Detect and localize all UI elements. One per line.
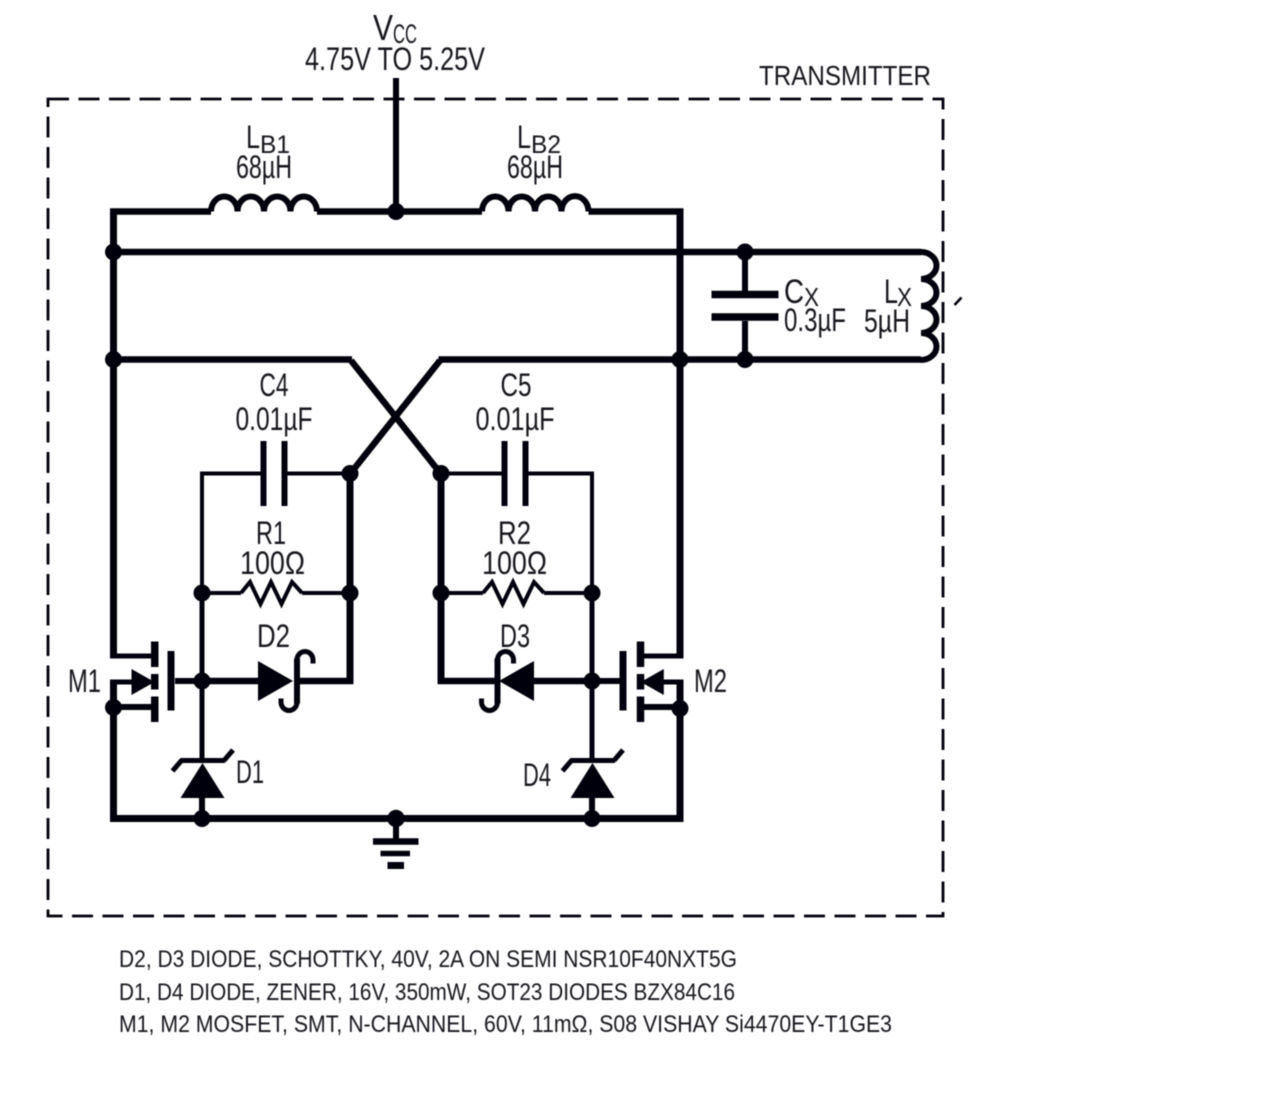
capacitor CX xyxy=(712,252,779,360)
node Cx bottom junction xyxy=(737,351,754,368)
svg-text:TRANSMITTER: TRANSMITTER xyxy=(759,60,931,91)
wire right rail upper xyxy=(677,209,684,659)
node Cx top junction xyxy=(737,244,754,261)
inductor LB2 xyxy=(482,196,589,211)
node M1 source junction xyxy=(105,699,122,716)
ground xyxy=(373,818,419,866)
svg-text:D2: D2 xyxy=(257,618,290,654)
svg-text:100Ω: 100Ω xyxy=(482,545,547,581)
node cross right junction xyxy=(433,465,450,482)
node right rail tank junction xyxy=(672,351,689,368)
node R2 left junction xyxy=(433,585,450,602)
svg-text:100Ω: 100Ω xyxy=(240,545,305,581)
svg-text:5µH: 5µH xyxy=(864,303,910,339)
wire gate node M2 vertical xyxy=(590,593,595,681)
transistor M2 xyxy=(592,642,683,723)
wire R1C4 right leg thick xyxy=(347,474,354,685)
transistor M1 xyxy=(111,642,202,723)
wire tank bottom right segment xyxy=(439,356,922,363)
svg-text:C4: C4 xyxy=(260,367,289,403)
node center ground junction xyxy=(387,810,404,827)
svg-text:0.3µF: 0.3µF xyxy=(784,302,846,338)
svg-text:D4: D4 xyxy=(523,757,551,793)
wire gate node M1 vertical xyxy=(200,593,205,681)
svg-text:D1: D1 xyxy=(236,754,264,790)
capacitor C5 xyxy=(441,441,592,506)
svg-text:M2: M2 xyxy=(694,663,727,699)
svg-text:D3: D3 xyxy=(500,618,530,654)
node R1 right junction xyxy=(342,585,359,602)
svg-text:0.01µF: 0.01µF xyxy=(236,401,313,437)
diode D4 zener xyxy=(563,681,624,818)
node D4 ground junction xyxy=(584,810,601,827)
wire right rail lower xyxy=(677,680,684,823)
wire top rail with inductor gaps xyxy=(110,208,684,215)
inductor LX xyxy=(921,252,937,360)
svg-text:C5: C5 xyxy=(501,367,532,403)
svg-text:M1: M1 xyxy=(68,663,101,699)
node VCC label xyxy=(305,7,486,77)
node left rail lower junction xyxy=(105,351,122,368)
parts list notes xyxy=(119,946,892,1038)
capacitor C4 xyxy=(202,441,347,506)
svg-text:4.75V TO 5.25V: 4.75V TO 5.25V xyxy=(305,41,486,77)
node R2 right junction xyxy=(584,585,601,602)
node M2 gate junction xyxy=(584,673,601,690)
wire left rail upper xyxy=(110,209,117,659)
svg-text:68µH: 68µH xyxy=(236,149,292,185)
wire R1C4 left leg xyxy=(200,472,204,596)
transmitter boundary dashed box xyxy=(48,99,943,916)
wire VCC stem xyxy=(393,78,399,212)
svg-text:D1, D4 DIODE, ZENER, 16V, 350m: D1, D4 DIODE, ZENER, 16V, 350mW, SOT23 D… xyxy=(119,979,735,1006)
wire tank bottom left segment xyxy=(110,356,352,363)
wire tank top (to Cx and Lx) xyxy=(110,249,921,256)
node left rail top junction xyxy=(105,244,122,261)
wire bottom rail xyxy=(110,815,684,822)
wire cross-couple diagonal left-to-right xyxy=(351,361,441,475)
node D1 ground junction xyxy=(194,810,211,827)
resistor R1 xyxy=(202,582,350,604)
wire cross-couple diagonal right-to-left xyxy=(350,361,440,475)
inductor LB1 xyxy=(211,196,317,211)
svg-text:M1, M2 MOSFET, SMT, N-CHANNEL,: M1, M2 MOSFET, SMT, N-CHANNEL, 60V, 11mΩ… xyxy=(119,1011,892,1038)
diode D2 schottky xyxy=(202,652,353,711)
receiver coil tick mark xyxy=(955,298,962,306)
wire R2C5 right leg xyxy=(590,472,594,596)
svg-text:0.01µF: 0.01µF xyxy=(476,401,555,437)
node cross left junction xyxy=(342,465,359,482)
wire left rail lower xyxy=(110,680,117,823)
resistor R2 xyxy=(441,582,592,604)
node R1 left junction xyxy=(194,585,211,602)
node VCC junction xyxy=(388,203,405,220)
diode D1 zener xyxy=(173,681,234,818)
node M2 source junction xyxy=(672,700,689,717)
node M1 gate junction xyxy=(194,673,211,690)
svg-text:D2, D3 DIODE, SCHOTTKY, 40V, 2: D2, D3 DIODE, SCHOTTKY, 40V, 2A ON SEMI … xyxy=(119,946,737,973)
wire R2C5 left leg thick xyxy=(438,474,445,685)
svg-text:68µH: 68µH xyxy=(507,149,563,185)
diode D3 schottky xyxy=(438,652,592,711)
